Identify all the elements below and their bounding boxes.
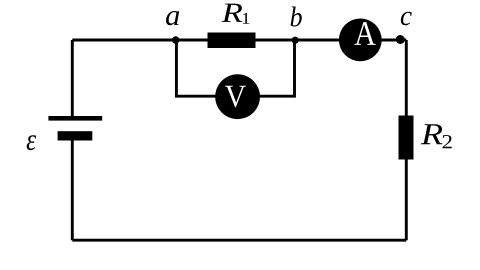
- wire left upper (to battery top plate): [71, 40, 74, 117]
- label R1 letter R: [222, 4, 243, 22]
- resistor R2: [399, 116, 414, 160]
- battery plate short thick (bottom): [58, 131, 93, 140]
- node b junction dot: [292, 37, 299, 44]
- label R2 letter R: [421, 124, 443, 144]
- voltmeter circle: [215, 74, 260, 119]
- label R1 subscript 1: [243, 13, 250, 24]
- wire bottom: [72, 239, 406, 242]
- resistor R1: [208, 33, 256, 49]
- wire voltmeter branch a-V-b: [176, 40, 294, 96]
- node c junction dot: [396, 35, 405, 44]
- label c: [401, 12, 412, 26]
- battery plate long thin (top): [48, 116, 102, 121]
- label b: [291, 7, 302, 27]
- ammeter letter A: [355, 22, 376, 45]
- voltmeter letter V: [225, 86, 246, 108]
- label R2 subscript 2: [443, 135, 452, 148]
- node a junction dot: [172, 36, 180, 44]
- wire top (node corner a-b-c run): [72, 39, 406, 42]
- label epsilon EMF: [27, 135, 36, 150]
- label a: [166, 11, 179, 25]
- wire left lower (from battery bottom plate): [71, 136, 74, 240]
- wire right side: [405, 40, 408, 240]
- ammeter circle: [339, 19, 382, 62]
